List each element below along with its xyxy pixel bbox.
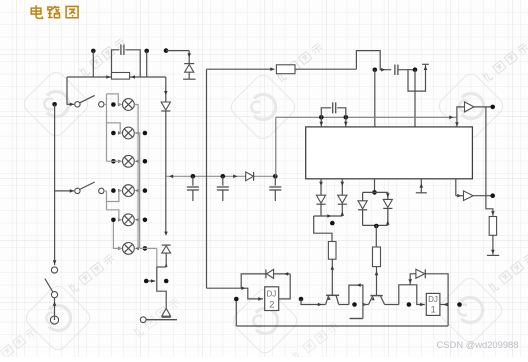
svg-text:1: 1 (431, 305, 436, 315)
svg-text:DJ: DJ (428, 295, 438, 304)
svg-text:CSDN @wd209988: CSDN @wd209988 (437, 339, 519, 350)
svg-text:DJ: DJ (267, 289, 277, 298)
svg-text:2: 2 (269, 300, 274, 310)
